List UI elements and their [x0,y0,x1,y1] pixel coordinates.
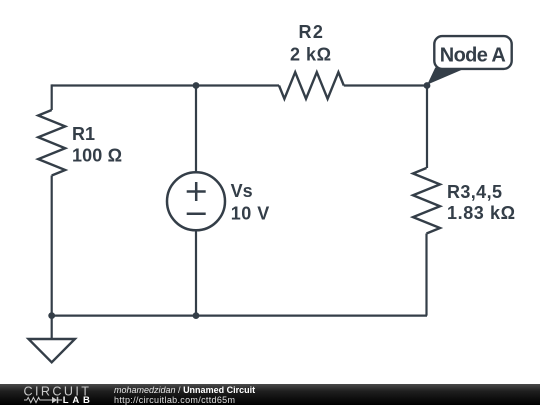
wire: right rail upper [426,86,428,169]
wire: left rail lower [51,176,53,316]
junction: bottom rail / ground [48,312,55,319]
svg-text:LAB: LAB [63,395,94,405]
voltage source minus sign [187,212,206,215]
junction: bottom rail / Vs bottom [193,312,200,319]
svg-text:http://circuitlab.com/cttd65m: http://circuitlab.com/cttd65m [114,395,235,405]
node A callout tail [427,68,467,85]
junction: top rail / Vs top [193,82,200,89]
svg-text:mohamedzidan / Unnamed Circuit: mohamedzidan / Unnamed Circuit [114,385,255,395]
voltage source plus sign [187,182,206,201]
wire: Vs top lead [195,86,197,173]
wire: left rail upper [51,84,53,110]
resistor R3,4,5 [413,168,440,234]
voltage source Vs body [167,172,225,230]
wire: Vs bottom lead [195,230,197,315]
footer bar background [0,384,540,405]
wire: top rail middle segment [196,84,279,86]
ground symbol [29,339,75,362]
wire: bottom rail [52,315,427,317]
wire: right rail lower [425,234,427,316]
node A callout box [434,36,511,69]
node A junction dot [424,82,431,89]
CircuitLab logo resistor-diode glyph [24,397,52,402]
resistor R1 [38,110,65,176]
wire: ground stem [51,316,53,339]
wire: top rail left segment [52,84,196,86]
resistor R2 [279,72,344,99]
wire: top rail right segment [344,84,427,86]
